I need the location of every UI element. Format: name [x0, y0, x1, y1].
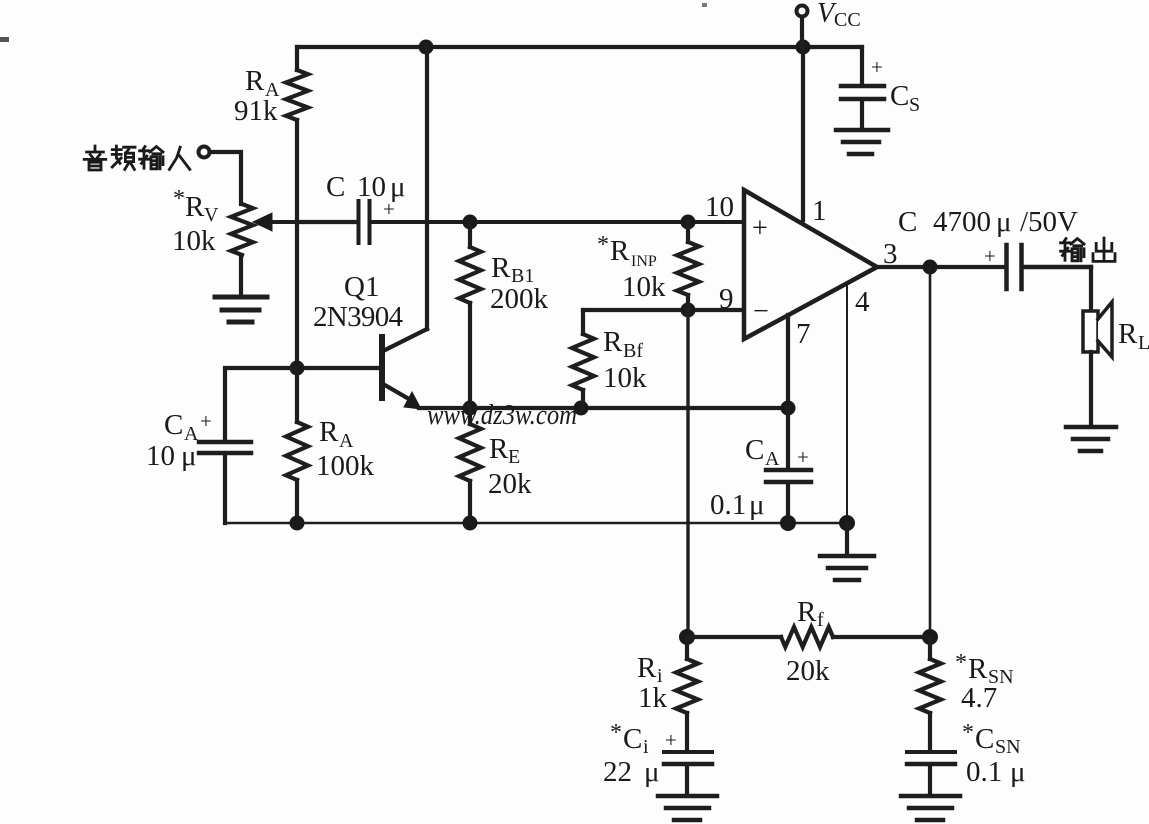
svg-text:1k: 1k — [638, 682, 668, 714]
resistor RSN 4.7 — [919, 637, 941, 751]
resistor RA 91k — [286, 47, 308, 368]
watermark — [427, 399, 577, 431]
node junction base — [290, 361, 305, 376]
svg-text:91k: 91k — [234, 95, 278, 127]
svg-text:+: + — [984, 244, 996, 268]
op-amp U1 — [744, 190, 877, 339]
svg-text:10: 10 — [357, 171, 386, 203]
svg-text:μ: μ — [996, 206, 1012, 238]
label output (Chinese) — [1061, 238, 1115, 261]
label RV 10k — [172, 186, 219, 257]
svg-text:+: + — [871, 55, 883, 79]
transistor Q1 2N3904 — [297, 47, 427, 409]
svg-text:A: A — [765, 448, 780, 470]
wire emitter rail — [419, 406, 788, 410]
ground mid — [820, 523, 874, 580]
label audio input (Chinese) — [84, 146, 190, 170]
svg-text:10k: 10k — [603, 362, 647, 394]
node junction top rail / Vcc — [796, 40, 811, 55]
speck top-left — [0, 37, 9, 42]
svg-text:20k: 20k — [786, 655, 830, 687]
wire ground rail bottom — [225, 522, 847, 525]
label RA 91k — [234, 65, 280, 127]
svg-text:Bf: Bf — [623, 340, 643, 362]
ground under Ci — [658, 796, 717, 820]
ground under RL — [1066, 427, 1116, 451]
svg-text:f: f — [817, 609, 824, 631]
resistor RB1 200k — [459, 222, 481, 407]
label RL — [1118, 318, 1149, 354]
label pin 3 — [883, 238, 898, 270]
wire op-amp output — [877, 265, 1004, 269]
svg-text:+: + — [752, 213, 768, 244]
label CSN 0.1u — [962, 720, 1026, 788]
label C 10u — [326, 171, 406, 221]
svg-text:C: C — [326, 171, 345, 203]
svg-text:C: C — [623, 723, 642, 755]
wire input to RV — [210, 152, 241, 204]
label Rf 20k — [786, 596, 830, 687]
speaker RL — [1083, 267, 1112, 425]
svg-text:V: V — [204, 204, 219, 226]
node junction RE bottom — [463, 516, 478, 531]
svg-text:www.dz3w.com: www.dz3w.com — [427, 399, 577, 431]
svg-text:R: R — [797, 596, 817, 628]
svg-text:R: R — [185, 191, 205, 223]
label pin 9 — [719, 283, 734, 315]
capacitor C 10u — [359, 201, 745, 243]
wire pin 7 — [786, 315, 790, 408]
svg-text:μ: μ — [749, 489, 765, 521]
label pin 4 — [855, 286, 870, 318]
svg-text:0.1: 0.1 — [710, 489, 746, 521]
wire pin 1 — [801, 47, 805, 220]
potentiometer RV 10k — [231, 204, 297, 294]
svg-text:E: E — [508, 446, 520, 468]
label CS — [871, 55, 920, 116]
ground under CSN — [901, 796, 960, 820]
label pin 7 — [796, 318, 811, 350]
svg-text:*: * — [173, 186, 185, 212]
resistor Ri 1k — [676, 637, 698, 751]
svg-text:R: R — [319, 416, 339, 448]
svg-text:200k: 200k — [490, 283, 549, 315]
label Q1 2N3904 — [313, 271, 404, 333]
svg-text:100k: 100k — [316, 450, 375, 482]
node junction pin10 / RINP — [681, 215, 696, 230]
svg-text:A: A — [339, 430, 354, 452]
svg-text:i: i — [643, 736, 649, 758]
node junction Ri / Rf — [679, 629, 695, 645]
svg-text:10: 10 — [705, 191, 734, 223]
resistor RBf 10k — [572, 310, 594, 408]
terminal Vcc — [797, 6, 808, 48]
node junction top rail / collector — [419, 40, 434, 55]
node junction ground tap — [839, 515, 855, 531]
label CA2 0.1u — [710, 434, 809, 521]
svg-text:4.7: 4.7 — [961, 682, 997, 714]
label Vcc — [817, 0, 861, 31]
svg-text:/50V: /50V — [1020, 206, 1078, 238]
label RE 20k — [488, 433, 532, 500]
svg-text:Q1: Q1 — [344, 271, 379, 303]
label op-amp plus minus — [752, 213, 769, 327]
speck top-mid — [702, 3, 707, 7]
svg-text:2N3904: 2N3904 — [313, 301, 404, 333]
svg-text:C: C — [745, 434, 764, 466]
svg-text:1: 1 — [812, 195, 827, 227]
svg-text:*: * — [962, 720, 974, 746]
svg-text:S: S — [909, 94, 920, 116]
svg-text:μ: μ — [1010, 756, 1026, 788]
svg-text:L: L — [1138, 332, 1149, 354]
svg-text:R: R — [1118, 318, 1138, 350]
svg-text:SN: SN — [995, 736, 1021, 758]
resistor RA2 100k — [286, 368, 308, 523]
ground under RV — [215, 297, 267, 322]
wire wiper to C — [297, 220, 356, 224]
svg-text:R: R — [637, 652, 657, 684]
svg-text:−: − — [753, 296, 769, 327]
node junction CA2 bottom — [780, 515, 796, 531]
node junction RBf bottom — [574, 401, 589, 416]
wire pin 4 — [846, 284, 848, 523]
node junction emitter / RB1 / RE — [463, 401, 478, 416]
svg-text:C: C — [164, 409, 183, 441]
svg-text:C: C — [898, 206, 917, 238]
capacitor C 4700u/50V — [1007, 245, 1092, 289]
svg-text:R: R — [245, 65, 265, 97]
svg-text:*: * — [597, 232, 609, 258]
svg-text:R: R — [610, 235, 630, 267]
capacitor CA2 0.1u — [766, 408, 811, 523]
node junction pin7 / CA2 — [781, 401, 796, 416]
label C 4700u/50V — [898, 206, 1078, 268]
svg-text:0.1: 0.1 — [966, 756, 1002, 788]
svg-text:7: 7 — [796, 318, 811, 350]
node junction pin9 / RINP — [681, 303, 696, 318]
label Ri 1k — [637, 652, 668, 714]
svg-text:10: 10 — [146, 440, 175, 472]
label CA 10u — [146, 409, 212, 472]
label RINP 10k — [597, 232, 666, 303]
svg-text:μ: μ — [644, 756, 660, 788]
svg-text:10k: 10k — [622, 271, 666, 303]
capacitor CA 10u (left) — [199, 368, 297, 523]
capacitor CS — [841, 47, 884, 129]
svg-text:4700: 4700 — [933, 206, 991, 238]
wire inverting node down — [686, 310, 689, 637]
svg-text:+: + — [383, 197, 395, 221]
label pin 10 — [705, 191, 734, 223]
svg-text:+: + — [665, 728, 677, 752]
svg-text:INP: INP — [631, 253, 657, 270]
label RSN 4.7 — [955, 650, 1014, 714]
resistor Rf 20k — [687, 627, 930, 647]
svg-text:C: C — [890, 80, 909, 112]
resistor RE 20k — [459, 408, 481, 523]
svg-text:*: * — [610, 720, 622, 746]
node junction output — [923, 260, 938, 275]
ground under CS — [836, 130, 888, 154]
capacitor CSN 0.1u — [907, 752, 955, 795]
svg-text:4: 4 — [855, 286, 870, 318]
svg-text:22: 22 — [603, 756, 632, 788]
svg-text:+: + — [797, 445, 809, 469]
svg-text:10k: 10k — [172, 225, 216, 257]
svg-text:CC: CC — [834, 9, 861, 31]
wire top supply rail — [297, 45, 862, 49]
svg-text:9: 9 — [719, 283, 734, 315]
svg-text:R: R — [968, 653, 988, 685]
wire output node down — [929, 267, 932, 637]
svg-text:20k: 20k — [488, 468, 532, 500]
label RBf 10k — [603, 326, 647, 394]
node junction RB1 top — [463, 215, 478, 230]
resistor RINP 10k — [677, 222, 699, 310]
svg-text:*: * — [955, 650, 967, 676]
svg-text:+: + — [200, 409, 212, 433]
label RA2 100k — [316, 416, 375, 482]
node junction RA2 bottom — [290, 516, 305, 531]
svg-text:R: R — [491, 252, 511, 284]
label Ci 22u — [603, 720, 677, 788]
node junction Rf / RSN — [922, 629, 938, 645]
svg-text:C: C — [975, 723, 994, 755]
capacitor Ci 22u — [664, 752, 712, 795]
label pin 1 — [812, 195, 827, 227]
svg-text:R: R — [603, 326, 623, 358]
svg-text:μ: μ — [181, 440, 197, 472]
terminal audio input — [199, 147, 210, 158]
label RB1 200k — [490, 252, 549, 315]
svg-text:R: R — [489, 433, 509, 465]
wire pin9 to RBf — [583, 308, 744, 312]
